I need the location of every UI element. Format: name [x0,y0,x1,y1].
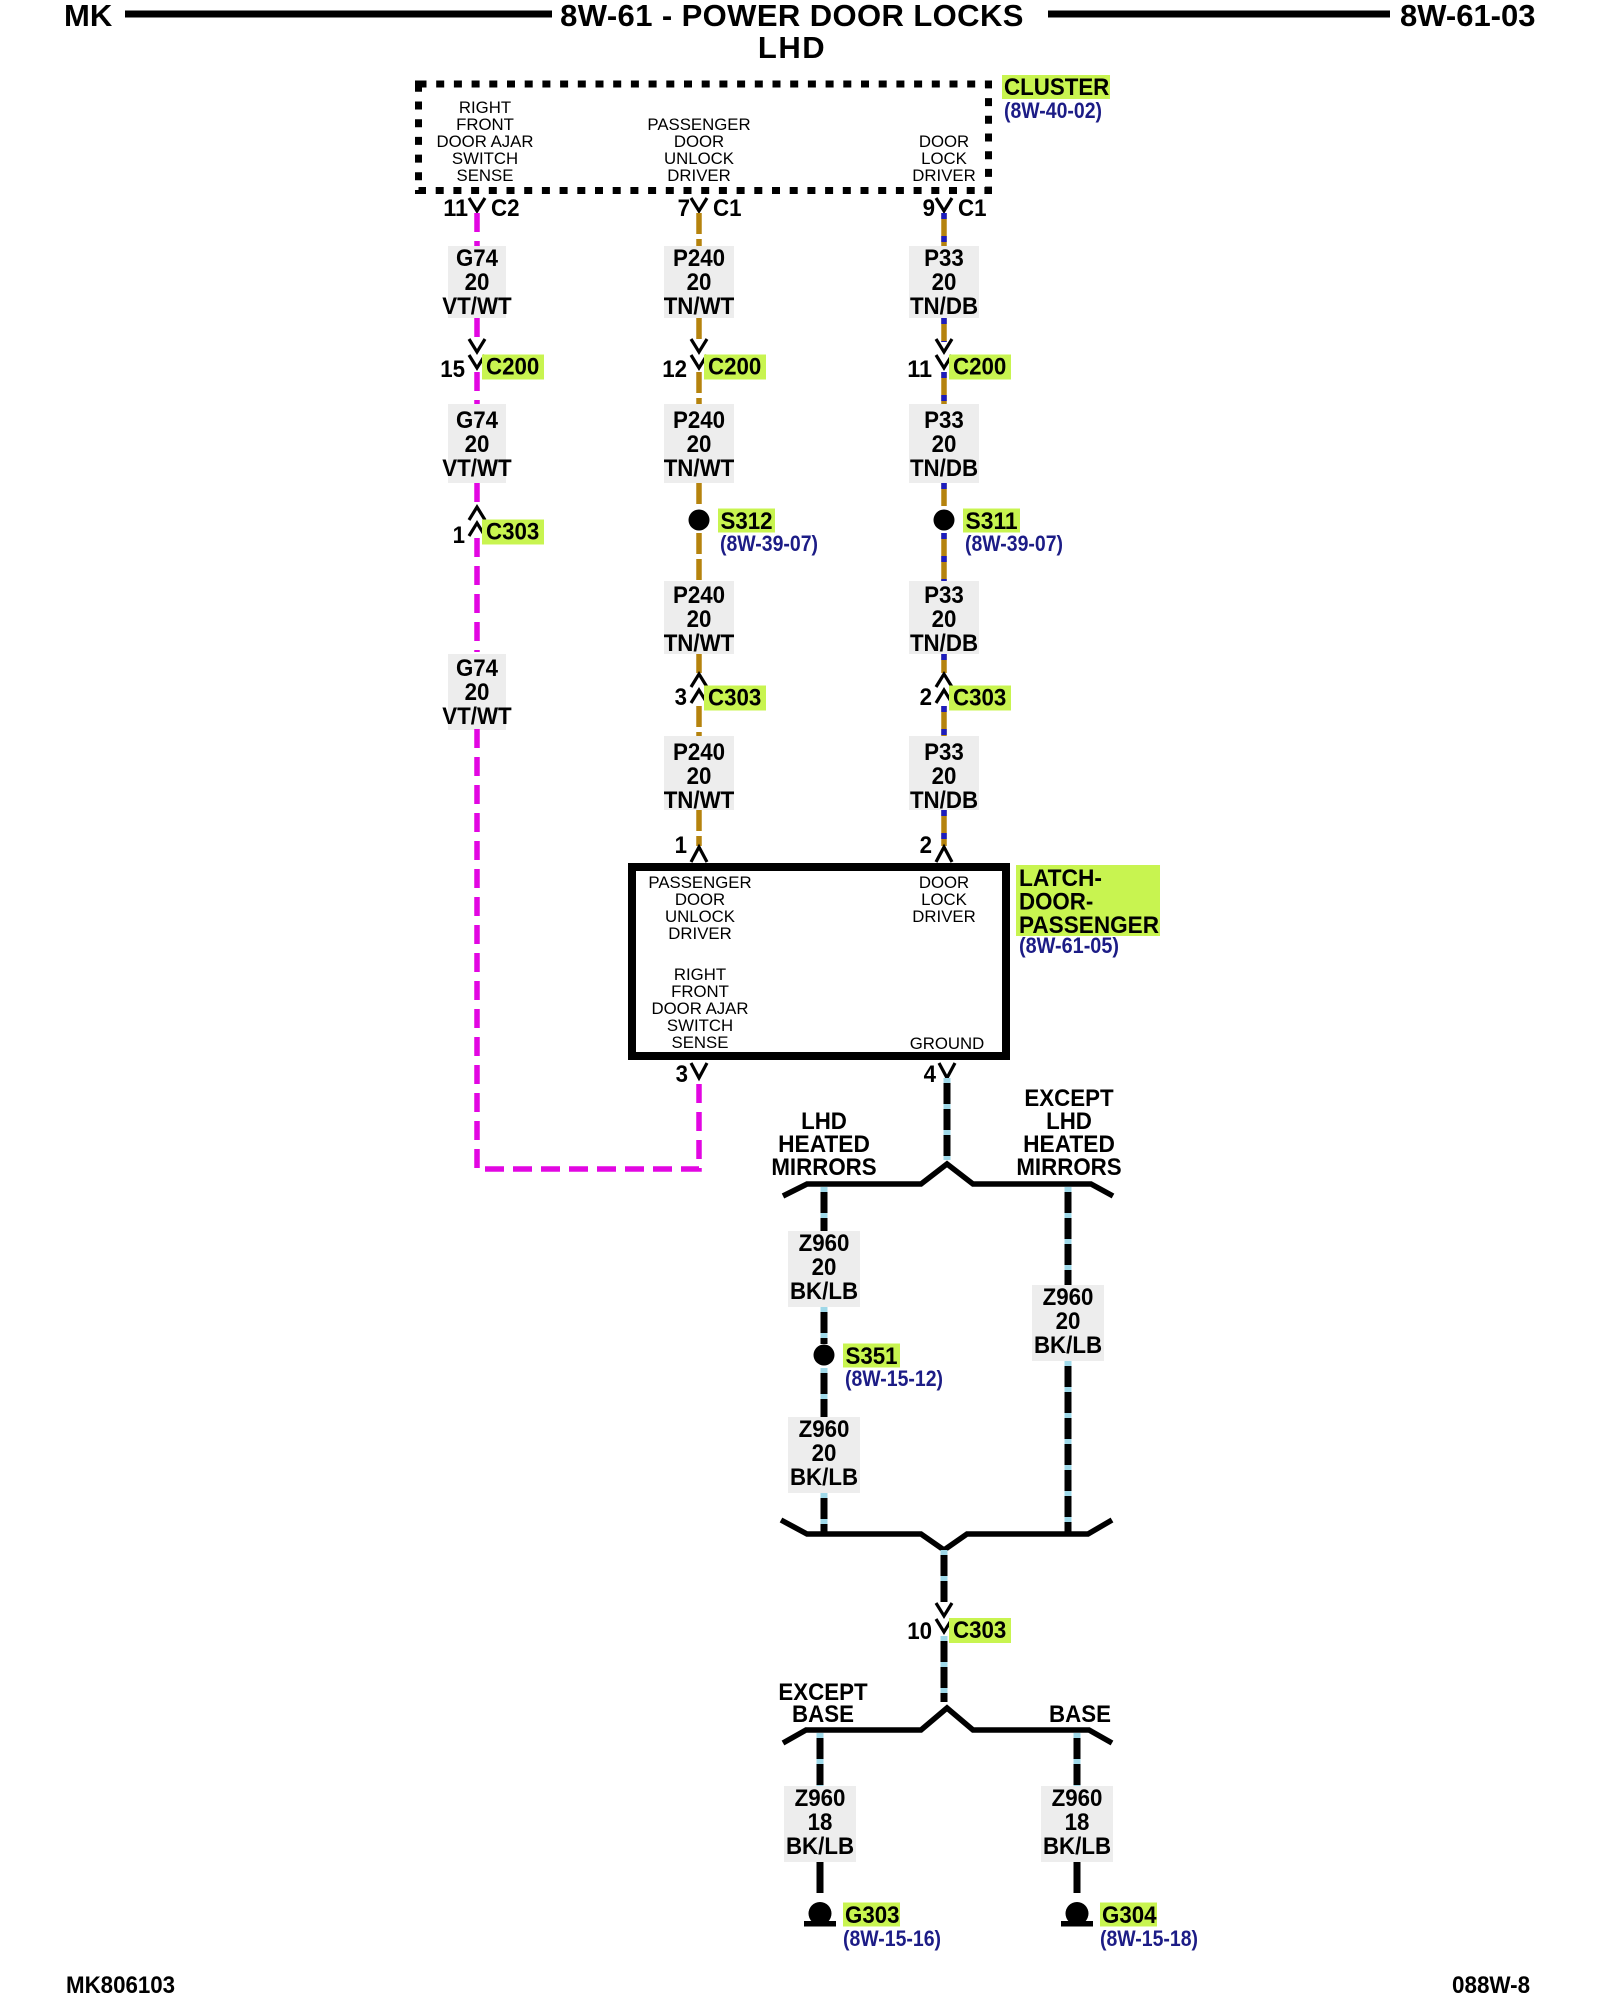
wire label G74 20 VT/WT (2) [442,404,512,483]
svg-text:Z960: Z960 [1052,1785,1103,1812]
svg-text:(8W-15-16): (8W-15-16) [843,1926,941,1951]
wire Z960 18 right seg1 [1074,1733,1081,1786]
svg-text:7: 7 [678,195,690,222]
svg-text:BASE: BASE [792,1701,854,1728]
connector C303 pin 3 (mid) [675,674,766,712]
svg-text:20: 20 [687,606,712,633]
svg-text:BK/LB: BK/LB [790,1464,858,1491]
svg-text:BASE: BASE [1049,1701,1111,1728]
wire Z960 18 right seg2 [1074,1862,1081,1893]
svg-text:(8W-39-07): (8W-39-07) [720,531,818,556]
wire label Z960 20 BK/LB (left1) [788,1230,860,1307]
svg-text:G304: G304 [1102,1902,1157,1929]
connector C200 pin 11 [907,339,1011,383]
wire G74 seg1 [474,213,480,247]
svg-text:BK/LB: BK/LB [786,1833,854,1860]
splice S312 [689,508,819,556]
wire Z960 right branch seg2 [1065,1361,1072,1534]
wire P33 seg4 [941,483,947,506]
option label EXCEPT LHD HEATED MIRRORS [1016,1085,1121,1181]
wire label P240 20 TN/WT (4) [664,736,735,814]
svg-text:P33: P33 [924,739,964,766]
svg-text:C303: C303 [953,1617,1006,1644]
wire Z960 left branch seg2 [821,1307,828,1344]
wire label G74 20 VT/WT (3) [442,654,512,730]
svg-text:2: 2 [920,684,932,711]
svg-text:G303: G303 [845,1902,900,1929]
LATCH pin function: right front door ajar switch sense [652,965,749,1052]
svg-text:Z960: Z960 [1043,1284,1094,1311]
svg-text:C2: C2 [491,195,520,222]
wire P33 seg1 [941,213,947,247]
connector C303 pin 2 [920,674,1011,712]
component LATCH-DOOR-PASSENGER box [632,867,1006,1056]
svg-text:20: 20 [687,431,712,458]
wire P240 seg6 [696,654,702,673]
svg-text:MK806103: MK806103 [66,1972,175,1999]
svg-text:20: 20 [932,269,957,296]
LATCH pin function: door lock driver [912,873,975,926]
wire label P33 20 TN/DB (2) [909,404,979,483]
header rule left [125,11,552,18]
svg-text:18: 18 [1065,1809,1090,1836]
svg-text:G74: G74 [456,245,499,272]
svg-text:11: 11 [907,356,932,383]
svg-text:(8W-61-05): (8W-61-05) [1019,933,1119,958]
wire P33 seg5 [941,533,947,581]
wire G74 seg3 [474,372,480,405]
svg-text:C1: C1 [958,195,987,222]
svg-text:MIRRORS: MIRRORS [1016,1154,1121,1181]
splice S351 [814,1343,944,1391]
svg-text:P33: P33 [924,582,964,609]
svg-text:TN/WT: TN/WT [664,787,735,814]
pin 4 of LATCH [924,1061,955,1088]
svg-text:G74: G74 [456,407,499,434]
wire P240 seg4 [696,483,702,506]
CLUSTER pin function: door lock driver [912,132,975,185]
svg-text:9: 9 [923,195,935,222]
wire P33 seg8 [941,810,947,846]
wire G74 long segment down and corner to latch pin 3 [477,729,699,1169]
wire G74 seg4 [474,483,480,506]
pin 1 of LATCH [675,832,707,862]
svg-text:DRIVER: DRIVER [912,166,975,185]
splice S311 [934,508,1064,556]
svg-text:TN/DB: TN/DB [910,455,978,482]
svg-text:(8W-15-18): (8W-15-18) [1100,1926,1198,1951]
svg-text:TN/DB: TN/DB [910,787,978,814]
svg-text:15: 15 [440,356,465,383]
svg-text:TN/WT: TN/WT [664,455,735,482]
wire Z960 18 left seg2 [817,1862,824,1893]
option split bracket (heated mirrors) [783,1164,1113,1196]
svg-text:C303: C303 [708,685,761,712]
pin 11 C2 of CLUSTER [443,195,519,222]
svg-text:088W-8: 088W-8 [1452,1972,1530,1999]
svg-text:20: 20 [932,763,957,790]
wire Z960 18 left seg1 [817,1733,824,1786]
svg-text:VT/WT: VT/WT [442,293,512,320]
svg-text:10: 10 [907,1618,932,1645]
svg-text:P33: P33 [924,407,964,434]
svg-text:2: 2 [920,832,932,859]
svg-text:BK/LB: BK/LB [1043,1833,1111,1860]
svg-text:4: 4 [924,1061,937,1088]
wire label P240 20 TN/WT (3) [664,581,735,657]
header rule right [1048,11,1390,18]
option merge bracket (heated mirrors) [781,1520,1112,1550]
svg-text:MIRRORS: MIRRORS [771,1154,876,1181]
svg-text:CLUSTER: CLUSTER [1004,74,1109,101]
svg-text:LHD: LHD [758,30,826,65]
svg-text:C303: C303 [486,519,539,546]
svg-text:GROUND: GROUND [910,1034,985,1053]
svg-text:(8W-15-12): (8W-15-12) [845,1366,943,1391]
wire label Z960 20 BK/LB (right) [1032,1284,1104,1361]
svg-text:TN/DB: TN/DB [910,293,978,320]
svg-text:C1: C1 [713,195,742,222]
connector C200 pin 12 [662,339,766,383]
wire P33 seg6 [941,654,947,673]
wire Z960 right branch seg1 [1065,1187,1072,1285]
svg-text:3: 3 [676,1061,688,1088]
svg-text:20: 20 [687,269,712,296]
svg-text:Z960: Z960 [799,1416,850,1443]
wire label Z960 18 BK/LB (left) [784,1785,856,1862]
svg-text:20: 20 [1056,1308,1081,1335]
svg-text:C200: C200 [708,354,761,381]
svg-text:1: 1 [453,522,465,549]
wire label P33 20 TN/DB (4) [909,736,979,814]
component CLUSTER box [419,84,989,191]
svg-text:DRIVER: DRIVER [667,166,730,185]
wire G74 seg2 [474,318,480,342]
connector C200 pin 15 [440,339,544,383]
svg-text:(8W-39-07): (8W-39-07) [965,531,1063,556]
svg-text:20: 20 [687,763,712,790]
CLUSTER pin function: right front door ajar switch sense [437,98,534,185]
wire Z960 merged seg1 [941,1550,948,1602]
pin 3 of LATCH [676,1061,707,1088]
wire label P240 20 TN/WT (2) [664,404,735,483]
wire P240 seg3 [696,372,702,405]
wire G74 seg5 [474,538,480,652]
svg-text:DRIVER: DRIVER [912,907,975,926]
wire Z960 left branch seg3 [821,1368,828,1417]
connector C303 pin 10 [907,1603,1011,1645]
wire Z960 merged seg2 [941,1636,948,1702]
wire P33 seg2 [941,318,947,342]
wire label Z960 20 BK/LB (left2) [788,1416,860,1493]
option label EXCEPT BASE [778,1679,868,1728]
svg-text:20: 20 [932,431,957,458]
ground G304 [1061,1902,1198,1951]
svg-text:20: 20 [465,269,490,296]
svg-text:20: 20 [465,431,490,458]
svg-text:18: 18 [808,1809,833,1836]
svg-text:SENSE: SENSE [457,166,514,185]
svg-text:SENSE: SENSE [672,1033,729,1052]
wire label G74 20 VT/WT (1) [442,245,512,320]
svg-text:VT/WT: VT/WT [442,703,512,730]
svg-text:C303: C303 [953,685,1006,712]
svg-text:(8W-40-02): (8W-40-02) [1004,98,1102,123]
wire P33 seg3 [941,372,947,405]
svg-text:Z960: Z960 [799,1230,850,1257]
connector C303 pin 1 [453,507,544,549]
wire P240 seg2 [696,318,702,342]
wire Z960 from pin 4 [944,1078,951,1160]
svg-text:BK/LB: BK/LB [1034,1332,1102,1359]
svg-text:20: 20 [465,679,490,706]
wire P240 seg7 [696,706,702,736]
svg-text:3: 3 [675,684,687,711]
option label LHD HEATED MIRRORS [771,1108,876,1181]
svg-text:TN/DB: TN/DB [910,630,978,657]
svg-text:P240: P240 [673,739,725,766]
wire label Z960 18 BK/LB (right) [1041,1785,1113,1862]
wire Z960 left branch seg4 [821,1493,828,1534]
svg-text:12: 12 [662,356,687,383]
CLUSTER name label [1002,74,1110,123]
svg-text:20: 20 [812,1254,837,1281]
svg-text:P240: P240 [673,582,725,609]
ground G303 [804,1902,941,1951]
svg-text:TN/WT: TN/WT [664,630,735,657]
svg-text:C200: C200 [486,354,539,381]
svg-text:P240: P240 [673,407,725,434]
svg-text:MK: MK [64,0,113,33]
svg-text:20: 20 [932,606,957,633]
svg-text:VT/WT: VT/WT [442,455,512,482]
svg-text:DRIVER: DRIVER [668,924,731,943]
svg-text:C200: C200 [953,354,1006,381]
pin 7 C1 of CLUSTER [678,195,742,222]
wire label P33 20 TN/DB (3) [909,581,979,657]
LATCH name label [1016,865,1160,958]
wire label P33 20 TN/DB (1) [909,245,979,320]
svg-text:20: 20 [812,1440,837,1467]
wire label P240 20 TN/WT (1) [664,245,735,320]
wire P240 seg1 [696,213,702,247]
CLUSTER pin function: passenger door unlock driver [647,115,750,185]
svg-text:1: 1 [675,832,687,859]
svg-text:P240: P240 [673,245,725,272]
LATCH pin function: passenger door unlock driver [648,873,751,943]
pin 2 of LATCH [920,832,952,862]
wire P240 seg8 [696,810,702,846]
svg-text:G74: G74 [456,655,499,682]
wire Z960 left branch seg1 [821,1187,828,1231]
svg-text:11: 11 [443,195,468,222]
svg-text:8W-61-03: 8W-61-03 [1400,0,1536,33]
svg-text:TN/WT: TN/WT [664,293,735,320]
svg-text:BK/LB: BK/LB [790,1278,858,1305]
wire P240 seg5 [696,533,702,581]
svg-text:8W-61 - POWER DOOR LOCKS: 8W-61 - POWER DOOR LOCKS [560,0,1024,33]
pin 9 C1 of CLUSTER [923,195,987,222]
svg-text:P33: P33 [924,245,964,272]
option split bracket (base) [783,1708,1112,1743]
svg-text:Z960: Z960 [795,1785,846,1812]
wire P33 seg7 [941,706,947,736]
